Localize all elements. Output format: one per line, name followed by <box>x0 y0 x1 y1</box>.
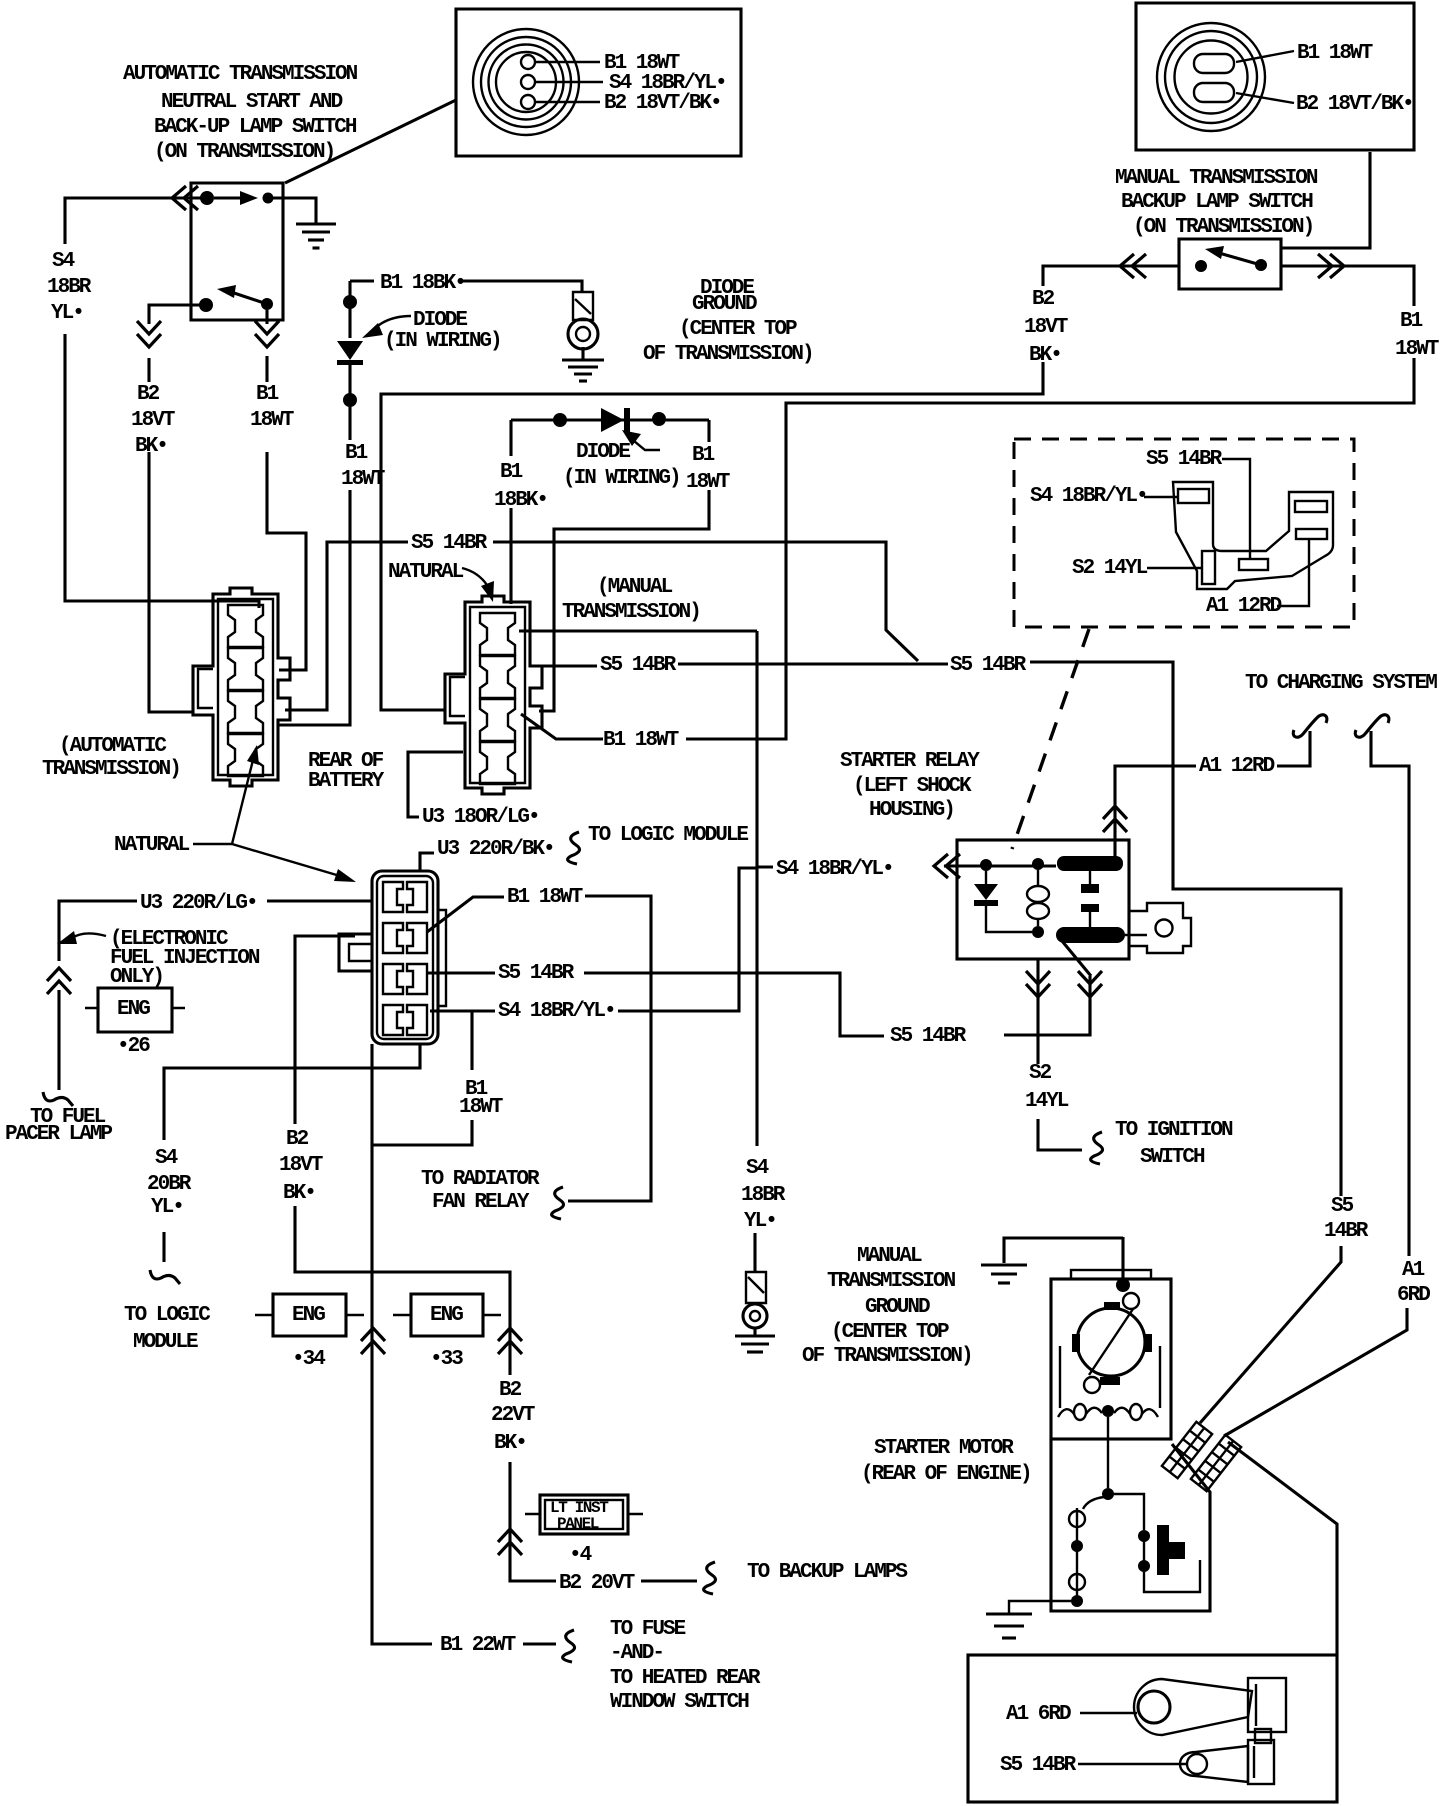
wire S2 from relay to ignition switch <box>1038 959 1082 1150</box>
switch lever bottom with arrow <box>231 292 267 304</box>
terminal top right <box>1295 501 1327 512</box>
wire A1 6RD from charging down right side <box>1224 731 1409 1436</box>
svg-text:TO LOGIC MODULE: TO LOGIC MODULE <box>588 824 748 847</box>
ENG connector box 26 <box>98 988 172 1032</box>
svg-text:(AUTOMATIC: (AUTOMATIC <box>59 735 167 758</box>
svg-text:OF TRANSMISSION): OF TRANSMISSION) <box>643 343 813 366</box>
svg-text:(MANUAL: (MANUAL <box>597 576 673 599</box>
svg-text:B2: B2 <box>286 1128 309 1151</box>
wire from label to diode ground device <box>463 281 582 292</box>
svg-text:STARTER MOTOR: STARTER MOTOR <box>874 1437 1014 1460</box>
svg-text:B2 18VT/BK•: B2 18VT/BK• <box>1296 93 1413 116</box>
armature circle <box>1077 1308 1145 1376</box>
manual backup lamp switch box <box>1179 239 1281 289</box>
svg-text:S5 14BR: S5 14BR <box>498 962 575 985</box>
svg-text:ENG: ENG <box>292 1304 325 1327</box>
svg-text:GROUND: GROUND <box>865 1296 930 1319</box>
switch contact dots top <box>200 191 214 205</box>
svg-text:B1 18WT: B1 18WT <box>1297 42 1373 65</box>
svg-text:BACK-UP LAMP SWITCH: BACK-UP LAMP SWITCH <box>154 116 357 139</box>
starter relay box <box>957 840 1129 959</box>
svg-text:TO RADIATOR: TO RADIATOR <box>421 1168 540 1191</box>
svg-text:S5: S5 <box>1331 1195 1354 1218</box>
terminal S5 <box>1239 559 1268 570</box>
leader S4 <box>1144 496 1177 498</box>
wire S4 from switch to auto connector <box>65 198 259 608</box>
svg-text:S4 18BR/YL•: S4 18BR/YL• <box>1030 485 1147 508</box>
svg-text:ONLY): ONLY) <box>110 966 163 989</box>
svg-text:TO IGNITION: TO IGNITION <box>1115 1119 1233 1142</box>
svg-text:FAN RELAY: FAN RELAY <box>432 1191 530 1214</box>
svg-text:OF TRANSMISSION): OF TRANSMISSION) <box>802 1345 972 1368</box>
svg-text:•33: •33 <box>430 1348 463 1371</box>
svg-text:U3 18OR/LG•: U3 18OR/LG• <box>422 806 539 829</box>
wire from armature to solenoid <box>1107 1417 1109 1488</box>
svg-text:MANUAL TRANSMISSION: MANUAL TRANSMISSION <box>1115 167 1318 190</box>
slot leader wires <box>1236 51 1294 62</box>
svg-text:20BR: 20BR <box>147 1173 192 1196</box>
junction dots <box>343 295 357 309</box>
switch lever with arrow <box>1219 253 1261 265</box>
svg-text:B1: B1 <box>256 383 279 406</box>
armature diagonal <box>1089 1309 1133 1375</box>
svg-text:BK•: BK• <box>135 435 167 458</box>
ground (switch) <box>296 222 336 225</box>
svg-text:DIODE: DIODE <box>576 441 630 464</box>
brush circle 1 <box>1123 1293 1139 1309</box>
connector detail box (automatic transmission switch face view) <box>456 9 741 156</box>
svg-text:(REAR OF ENGINE): (REAR OF ENGINE) <box>861 1463 1031 1486</box>
svg-text:TO LOGIC: TO LOGIC <box>124 1304 211 1327</box>
internal arrow contact <box>214 196 242 199</box>
svg-text:TRANSMISSION: TRANSMISSION <box>827 1270 956 1293</box>
svg-text:18WT: 18WT <box>1395 338 1439 361</box>
LT INST PANEL box <box>540 1495 628 1534</box>
svg-text:TRANSMISSION): TRANSMISSION) <box>42 758 180 781</box>
pin leader wires <box>535 61 600 63</box>
svg-text:GROUND: GROUND <box>692 293 757 316</box>
svg-text:PACER LAMP: PACER LAMP <box>5 1123 112 1146</box>
wire B1 switch to auto connector tab <box>267 310 306 670</box>
wire S5 from relay bottom bar <box>1062 941 1091 1035</box>
ground (manual transmission) <box>735 1334 775 1337</box>
right secondary outline <box>438 910 446 1006</box>
wire B2 from switch left <box>381 266 1179 710</box>
ring terminal (manual transmission ground) <box>746 1272 766 1303</box>
wire B1 leader into manual connector <box>521 714 603 739</box>
svg-text:TO FUSE: TO FUSE <box>610 1618 686 1641</box>
svg-text:•4: •4 <box>569 1544 592 1567</box>
left flange <box>339 934 372 971</box>
arrow natural to manual connector <box>462 568 487 585</box>
svg-text:S5 14BR: S5 14BR <box>1146 448 1223 471</box>
diode D1 (in wiring) <box>337 341 363 360</box>
field frame bracket <box>1060 1346 1160 1408</box>
pin S4 <box>521 75 535 89</box>
wire + label S5 14BR (terminal) <box>1078 1763 1186 1765</box>
middle 8-way connector shell <box>372 871 438 1044</box>
svg-text:18BR: 18BR <box>741 1184 786 1207</box>
natural fork arrows <box>193 760 340 876</box>
svg-text:•26: •26 <box>117 1035 150 1058</box>
diode D2 (in wiring) <box>601 408 624 432</box>
svg-text:18WT: 18WT <box>459 1096 503 1119</box>
solenoid T contact <box>1157 1525 1169 1575</box>
wire from cables to terminal box <box>1228 1442 1337 1655</box>
dashed leader to relay <box>1012 629 1089 849</box>
svg-text:(ON TRANSMISSION): (ON TRANSMISSION) <box>1133 216 1313 239</box>
pin B2 <box>521 95 535 109</box>
svg-text:18WT: 18WT <box>250 409 294 432</box>
wire B1 18WT middle label vertical <box>372 1011 472 1145</box>
cable bundle hatched connector 2 <box>1191 1435 1241 1491</box>
svg-text:(CENTER TOP: (CENTER TOP <box>831 1321 949 1344</box>
svg-text:AUTOMATIC TRANSMISSION: AUTOMATIC TRANSMISSION <box>123 63 358 86</box>
svg-text:18BR: 18BR <box>47 276 92 299</box>
svg-text:STARTER RELAY: STARTER RELAY <box>840 750 980 773</box>
wire B2 18VT/BK branch from flange <box>295 936 697 1581</box>
solenoid housing (lower) <box>1051 1439 1210 1611</box>
svg-text:A1 12RD: A1 12RD <box>1199 755 1275 778</box>
svg-text:S4: S4 <box>746 1157 769 1180</box>
cable bundle hatched connector 1 <box>1162 1422 1212 1478</box>
svg-text:18VT: 18VT <box>1024 316 1068 339</box>
svg-text:(IN WIRING): (IN WIRING) <box>563 467 680 490</box>
svg-text:•34: •34 <box>292 1348 325 1371</box>
svg-text:S2 14YL: S2 14YL <box>1072 557 1148 580</box>
manual transmission connector shell <box>445 596 542 794</box>
diode-in-wiring 1 vertical wire <box>279 281 350 725</box>
relay diode <box>985 871 987 884</box>
motor feed wire + dot <box>1121 1237 1124 1283</box>
starter motor top plate <box>1071 1270 1151 1279</box>
small lug S5 <box>1180 1746 1248 1782</box>
terminal detail box <box>968 1655 1337 1802</box>
wire with label B1 18BK <box>350 279 374 282</box>
svg-text:18BK•: 18BK• <box>494 489 547 512</box>
wire S4 18BR/YL from middle connector <box>430 868 757 1011</box>
leader S2 <box>1147 567 1201 569</box>
dashed detail box <box>1014 439 1354 627</box>
svg-text:BK•: BK• <box>1029 344 1061 367</box>
starter motor housing (upper) <box>1051 1279 1171 1439</box>
svg-text:YL•: YL• <box>51 302 83 325</box>
svg-text:B2: B2 <box>137 383 160 406</box>
svg-text:S4: S4 <box>52 250 75 273</box>
svg-text:U3 220R/LG•: U3 220R/LG• <box>140 892 257 915</box>
diode row 2 wire <box>511 418 709 421</box>
svg-text:WINDOW SWITCH: WINDOW SWITCH <box>610 1691 749 1714</box>
wire B1 from switch right <box>686 266 1414 739</box>
svg-text:S5 14BR: S5 14BR <box>1000 1754 1077 1777</box>
automatic transmission connector shell <box>193 588 290 786</box>
ENG box 34 <box>273 1294 346 1336</box>
wire B1 18WT leader from middle connector <box>427 897 504 932</box>
relay contact top bar <box>1057 856 1123 871</box>
svg-text:B2 20VT: B2 20VT <box>559 1572 635 1595</box>
switch contact dots bottom <box>199 298 213 312</box>
svg-text:B2: B2 <box>1032 288 1055 311</box>
pointer line from switch to detail box <box>285 100 456 183</box>
solenoid contact wire <box>1108 1494 1144 1530</box>
svg-text:TO BACKUP LAMPS: TO BACKUP LAMPS <box>747 1561 907 1584</box>
svg-text:B2: B2 <box>499 1379 522 1402</box>
svg-text:(IN WIRING): (IN WIRING) <box>384 330 501 353</box>
wire S5 14BR from middle connector to starter relay <box>428 973 1090 1036</box>
svg-text:HOUSING): HOUSING) <box>869 799 954 822</box>
svg-text:NEUTRAL START AND: NEUTRAL START AND <box>161 91 343 114</box>
wire A1 12RD from relay to charging system <box>1115 731 1310 856</box>
svg-text:BK•: BK• <box>283 1182 315 1205</box>
relay connector body <box>1173 482 1333 589</box>
connector detail box (manual transmission switch face view) <box>1136 3 1414 150</box>
solenoid ground wire <box>1009 1601 1071 1614</box>
svg-text:ENG: ENG <box>430 1304 463 1327</box>
wire from connector bottom <box>164 1044 420 1262</box>
field winding wavy bottom <box>1058 1408 1158 1417</box>
svg-text:B1: B1 <box>500 461 523 484</box>
solenoid coil <box>1083 1497 1104 1509</box>
svg-text:-AND-: -AND- <box>610 1642 663 1665</box>
svg-text:SWITCH: SWITCH <box>1140 1146 1205 1169</box>
svg-text:S4: S4 <box>155 1147 178 1170</box>
brush circle 2 <box>1084 1377 1100 1393</box>
svg-text:18WT: 18WT <box>686 471 730 494</box>
svg-text:TRANSMISSION): TRANSMISSION) <box>562 601 700 624</box>
svg-text:(CENTER TOP: (CENTER TOP <box>679 318 797 341</box>
svg-text:22VT: 22VT <box>491 1404 535 1427</box>
terminal A1 <box>1296 529 1327 539</box>
svg-text:S5 14BR: S5 14BR <box>890 1025 967 1048</box>
wire S5 14BR from manual connector across page <box>540 662 1341 1423</box>
svg-text:BACKUP LAMP SWITCH: BACKUP LAMP SWITCH <box>1121 191 1313 214</box>
svg-text:B1 18BK•: B1 18BK• <box>380 272 465 295</box>
wire B1 18WT to radiator fan relay <box>568 896 651 1201</box>
leader S5 <box>1222 459 1250 559</box>
svg-text:(ON TRANSMISSION): (ON TRANSMISSION) <box>154 141 334 164</box>
wire B2 switch to auto connector flange <box>149 305 206 712</box>
svg-text:ENG: ENG <box>117 998 150 1021</box>
ground (starter top) <box>981 1263 1027 1266</box>
svg-text:NATURAL: NATURAL <box>114 834 190 857</box>
wire B1 18WT right side of diode row <box>539 420 709 711</box>
relay coil <box>1037 870 1039 886</box>
svg-text:S5 14BR: S5 14BR <box>411 532 488 555</box>
switch contact dots <box>1195 260 1207 272</box>
svg-text:18VT: 18VT <box>131 409 175 432</box>
ground (solenoid) <box>986 1612 1032 1615</box>
svg-text:A1: A1 <box>1402 1259 1425 1282</box>
leader A1 <box>1277 540 1309 606</box>
svg-text:S5 14BR: S5 14BR <box>950 654 1027 677</box>
wire S4 vertical (manual connector pin to transmission ground) <box>755 631 757 1272</box>
wire U3 220R/LG from middle connector to fuel pacer lamp <box>59 901 373 1090</box>
automatic neutral start / backup switch box <box>191 183 283 320</box>
svg-text:YL•: YL• <box>744 1210 776 1233</box>
manual connector top pin wire to S4 vertical <box>519 629 757 632</box>
svg-text:6RD: 6RD <box>1397 1284 1430 1307</box>
wire B1 22WT long vertical to fuse <box>372 1044 556 1644</box>
svg-text:B1: B1 <box>1400 310 1423 333</box>
svg-text:B1: B1 <box>345 442 368 465</box>
arrow from label to wire <box>72 933 106 938</box>
svg-text:B1 18WT: B1 18WT <box>603 729 679 752</box>
svg-text:NATURAL: NATURAL <box>388 561 464 584</box>
battery cable lug A1 <box>1134 1679 1252 1735</box>
pin B1 <box>521 55 535 69</box>
terminal S2 <box>1202 551 1215 584</box>
svg-text:S4 18BR/YL•: S4 18BR/YL• <box>776 858 893 881</box>
diode ground ring terminal <box>568 319 598 349</box>
oval slot B1 <box>1194 54 1234 73</box>
oval slot B2 <box>1194 83 1234 102</box>
concentric connector face circles <box>473 29 579 135</box>
relay input dots <box>980 859 992 871</box>
svg-text:(LEFT SHOCK: (LEFT SHOCK <box>853 775 972 798</box>
svg-text:A1 6RD: A1 6RD <box>1006 1703 1071 1726</box>
wire B1 18BK down to manual connector <box>509 420 512 604</box>
svg-text:MANUAL: MANUAL <box>857 1245 922 1268</box>
terminal S4 <box>1178 489 1209 503</box>
wire S5 14BR from auto connector <box>285 542 918 710</box>
wire + label A1 6RD (terminal) <box>1080 1712 1137 1714</box>
arrow from label to diode 2 <box>634 441 660 450</box>
arrow from label to diode 1 <box>374 316 411 329</box>
svg-text:MODULE: MODULE <box>133 1331 198 1354</box>
svg-text:A1 12RD: A1 12RD <box>1206 595 1282 618</box>
svg-text:TO HEATED REAR: TO HEATED REAR <box>610 1667 761 1690</box>
relay contact bottom bar <box>1056 927 1125 943</box>
svg-text:B1 22WT: B1 22WT <box>440 1634 516 1657</box>
svg-text:18WT: 18WT <box>341 468 385 491</box>
ground (diode) <box>581 347 584 360</box>
diode ground device: case with slash <box>573 292 593 320</box>
svg-text:14BR: 14BR <box>1324 1220 1369 1243</box>
wire U3 220R/BK from middle connector <box>420 853 434 872</box>
break to logic module <box>568 832 580 864</box>
svg-text:14YL: 14YL <box>1025 1090 1069 1113</box>
svg-text:S5 14BR: S5 14BR <box>600 654 677 677</box>
wire to ground from switch <box>268 198 316 224</box>
svg-text:U3 220R/BK•: U3 220R/BK• <box>437 838 554 861</box>
svg-text:B1 18WT: B1 18WT <box>507 886 583 909</box>
wire from detail box to switch <box>1282 152 1370 248</box>
svg-text:DIODE: DIODE <box>413 309 467 332</box>
starter motor ground wire (top) <box>1004 1238 1123 1263</box>
relay mounting bracket <box>1129 903 1191 953</box>
svg-text:B1: B1 <box>692 444 715 467</box>
svg-text:18VT: 18VT <box>279 1154 323 1177</box>
svg-text:BK•: BK• <box>494 1432 526 1455</box>
svg-text:PANEL: PANEL <box>557 1515 599 1533</box>
ENG box 33 <box>411 1294 483 1336</box>
svg-text:B2 18VT/BK•: B2 18VT/BK• <box>604 92 721 115</box>
charging system break arrows <box>1293 715 1327 737</box>
svg-text:TO CHARGING SYSTEM: TO CHARGING SYSTEM <box>1245 672 1437 695</box>
svg-text:YL•: YL• <box>151 1196 183 1219</box>
svg-text:S4 18BR/YL•: S4 18BR/YL• <box>498 1000 615 1023</box>
svg-text:S2: S2 <box>1029 1062 1052 1085</box>
armature terminal ticks <box>1104 1302 1120 1310</box>
svg-text:BATTERY: BATTERY <box>308 770 385 793</box>
pin cavities <box>383 882 403 912</box>
wire S4 18BR/YL into relay <box>757 866 1056 867</box>
wire U3 18OR/LG from manual connector <box>408 752 463 817</box>
